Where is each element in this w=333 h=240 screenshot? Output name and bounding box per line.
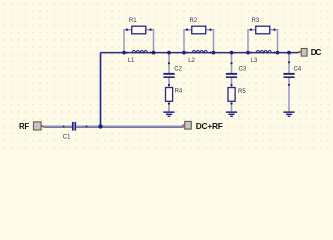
inductor L2 <box>186 50 212 53</box>
junction: L3 pin2 / R3 leg <box>276 51 280 55</box>
wire: C2 branch stem <box>168 53 170 111</box>
junction: top bus to C3 branch <box>230 51 234 55</box>
port DC+RF <box>182 121 191 129</box>
svg-text:DC+RF: DC+RF <box>196 121 223 131</box>
pin dot R5 pin 1 <box>230 84 232 86</box>
capacitor C4 <box>283 73 294 78</box>
ground under R4 <box>163 111 174 117</box>
wire: C3 branch stem <box>231 53 233 111</box>
resistor R3 <box>248 26 278 52</box>
resistor R5 <box>228 88 235 102</box>
junction: L1 pin2 / R1 leg <box>152 51 156 55</box>
pin dot R4 pin 1 <box>168 84 170 86</box>
port RF <box>34 122 44 130</box>
ground under C4 <box>283 111 294 117</box>
svg-text:R5: R5 <box>238 89 246 95</box>
pin dot C3 pin 1 <box>230 62 232 64</box>
svg-text:C3: C3 <box>239 67 247 73</box>
ground under R5 <box>226 111 237 117</box>
junction: L2 pin2 / R2 leg <box>212 51 216 55</box>
junction: L1 pin1 / R1 leg <box>122 51 126 55</box>
capacitor C3 <box>226 73 237 78</box>
svg-text:L1: L1 <box>128 58 135 64</box>
svg-text:L2: L2 <box>188 58 195 64</box>
wire: bottom RF line right segment <box>76 125 184 127</box>
junction: L2 pin1 / R2 leg <box>182 51 186 55</box>
pin dot R4 pin 2 <box>168 103 170 105</box>
svg-text:DC: DC <box>311 48 322 57</box>
inductor L3 <box>250 50 276 53</box>
junction: L3 pin1 / R3 leg <box>246 51 250 55</box>
junction: bottom node (riser meets RF line) <box>98 124 102 128</box>
svg-text:C1: C1 <box>63 135 71 141</box>
pin dot C2 pin 1 <box>168 62 170 64</box>
svg-text:L3: L3 <box>251 58 258 64</box>
junction: top bus to C2 branch <box>167 51 171 55</box>
capacitor C1 <box>72 122 76 131</box>
svg-text:C4: C4 <box>294 67 302 73</box>
svg-text:C2: C2 <box>174 67 182 73</box>
wire: input riser from bottom node to top bus <box>99 53 102 127</box>
svg-text:R3: R3 <box>252 18 260 24</box>
pin dot C1 pin 2 <box>86 126 88 128</box>
wire: bottom RF line left segment <box>43 125 72 127</box>
port DC <box>299 49 308 57</box>
svg-text:R1: R1 <box>129 18 137 24</box>
wire: C4 branch stem <box>288 53 290 111</box>
svg-text:RF: RF <box>19 122 29 131</box>
resistor R4 <box>166 88 173 102</box>
pin dot C1 pin 1 <box>63 126 65 128</box>
resistor R1 <box>124 26 154 52</box>
pin dot C4 pin 2 <box>288 84 290 86</box>
resistor R2 <box>184 26 214 52</box>
wire: main top bus <box>101 52 299 54</box>
svg-text:R2: R2 <box>190 18 198 24</box>
svg-text:R4: R4 <box>175 89 183 95</box>
pin dot R5 pin 2 <box>230 103 232 105</box>
inductor L1 <box>126 50 152 53</box>
junction: top bus to C4 branch <box>287 51 291 55</box>
capacitor C2 <box>163 73 174 78</box>
pin dot C4 pin 1 <box>288 61 290 63</box>
